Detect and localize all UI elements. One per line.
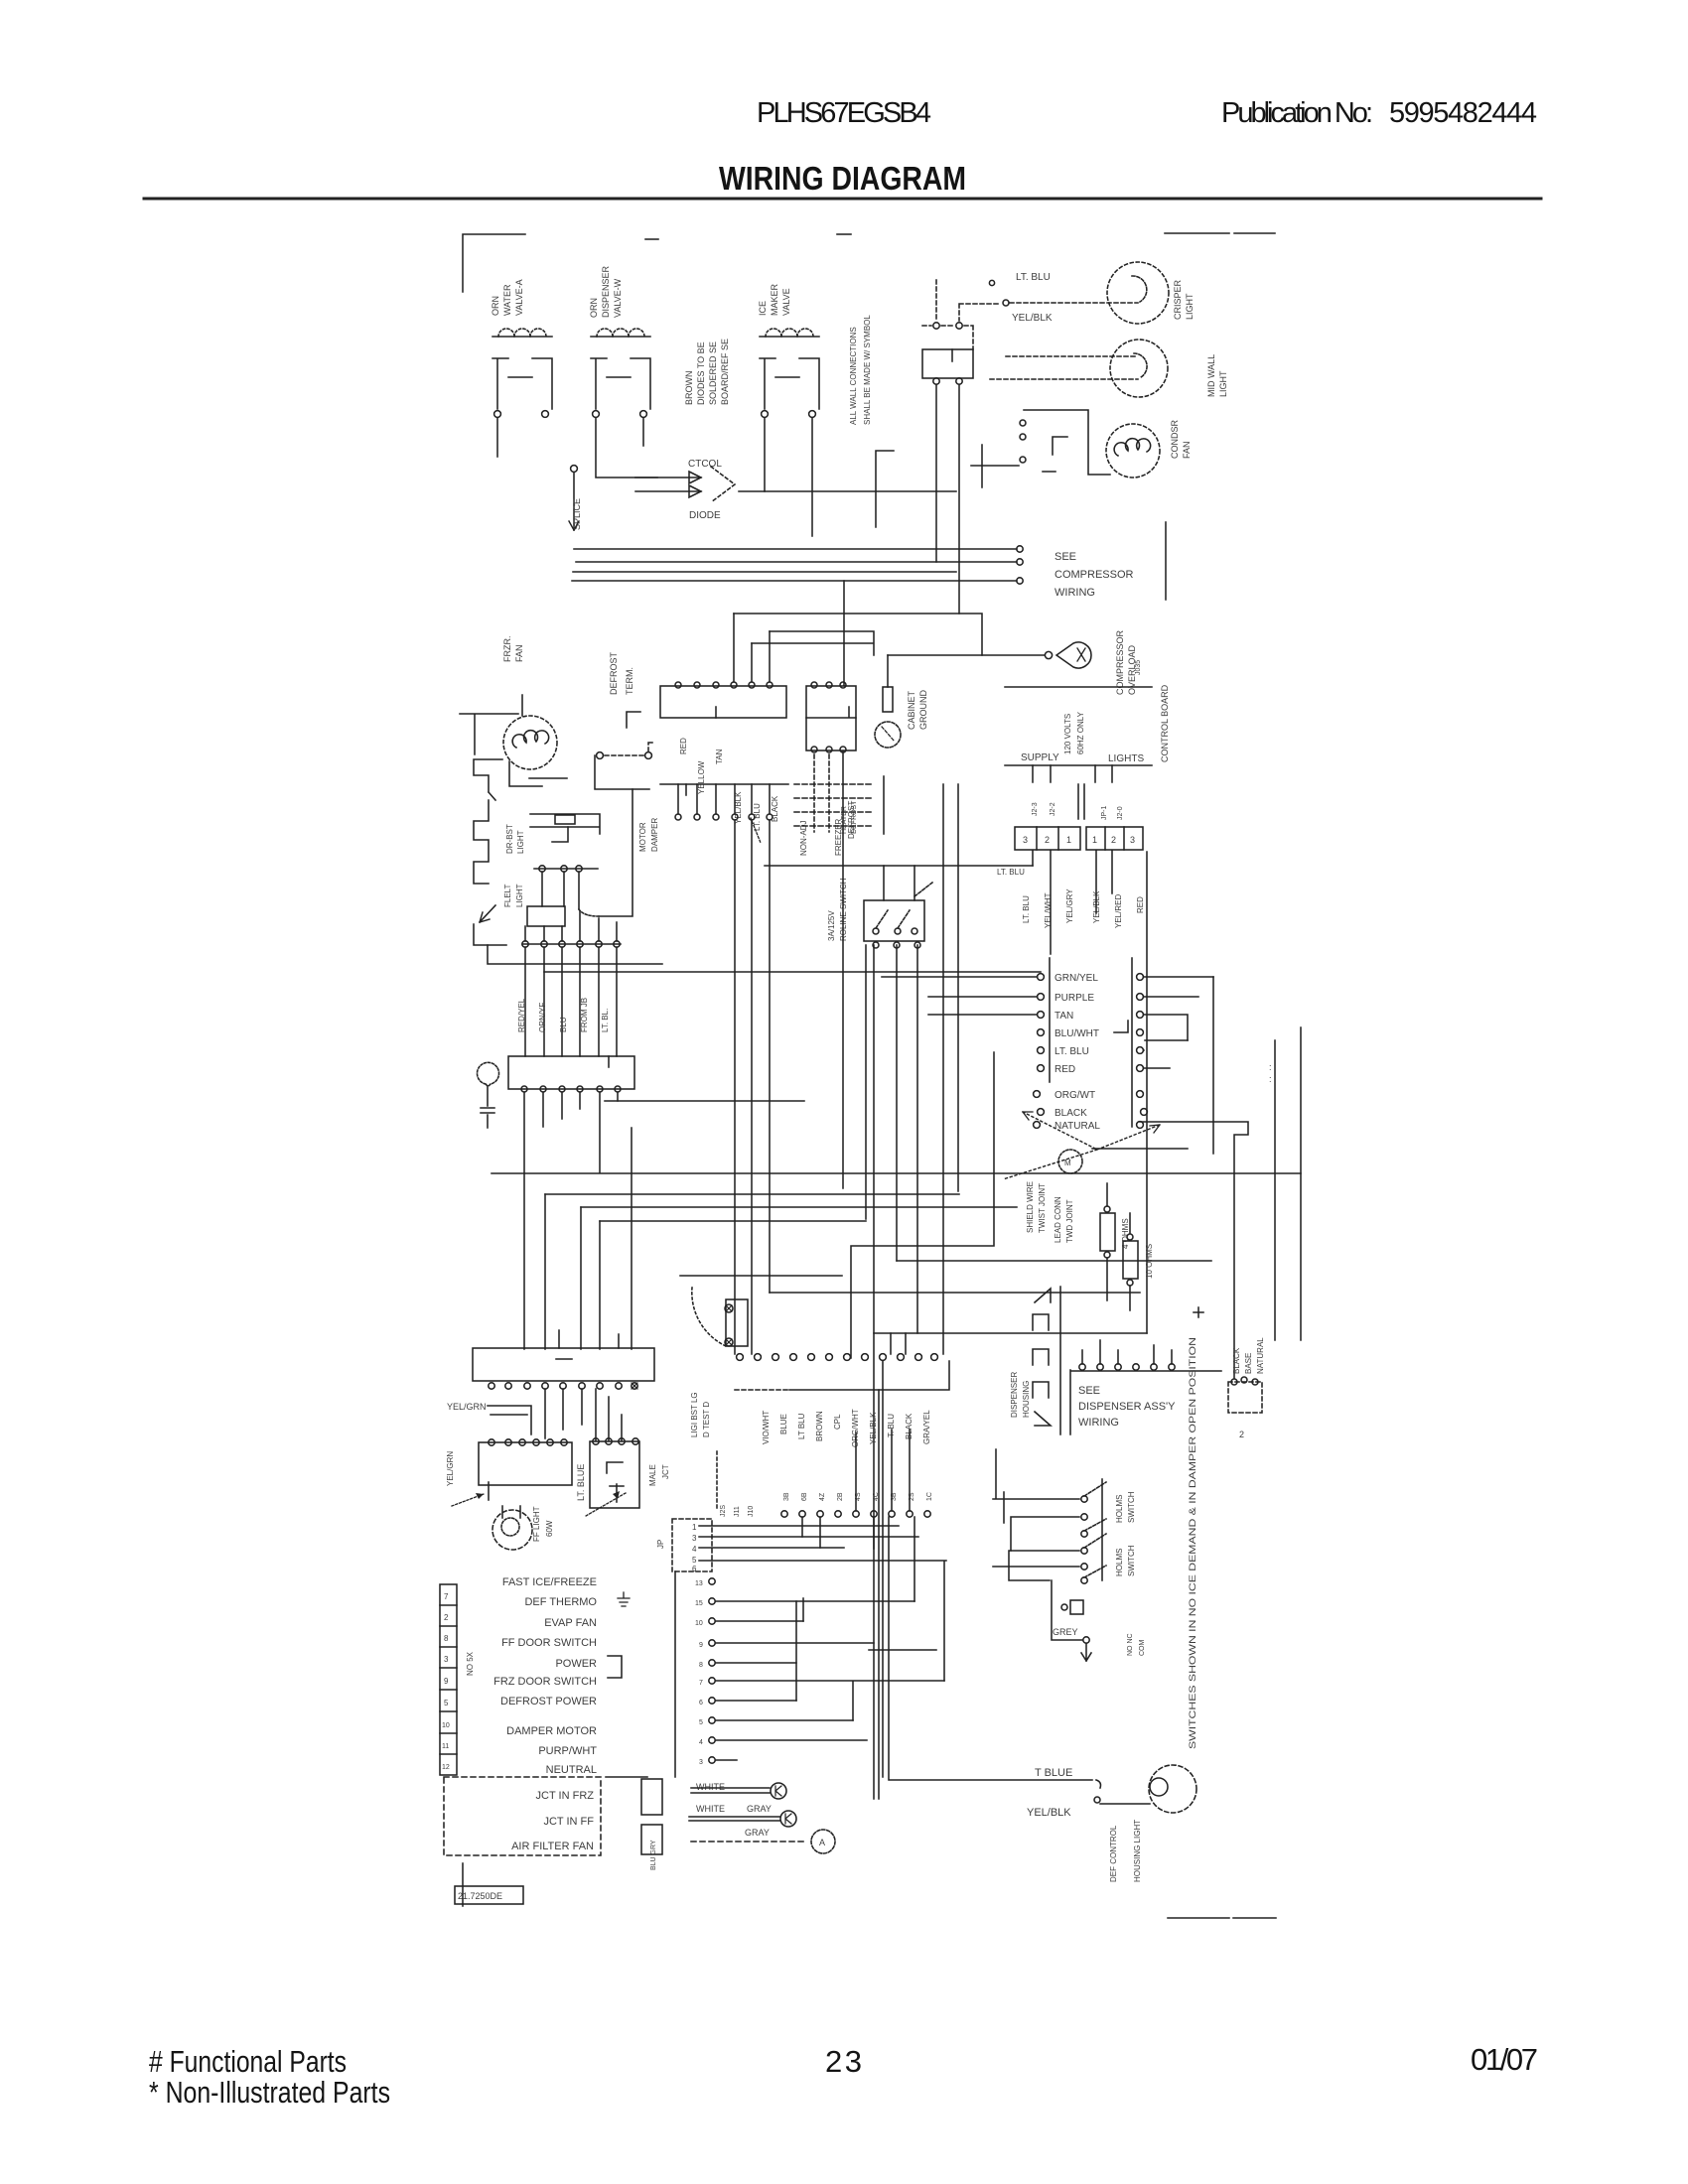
svg-text:AIR FILTER FAN: AIR FILTER FAN	[511, 1841, 594, 1852]
bracket power	[608, 1656, 622, 1678]
connector non-adj control	[806, 686, 856, 751]
svg-text:LIGI BST LG: LIGI BST LG	[690, 1392, 699, 1437]
connector dashed 3pin	[1228, 1382, 1262, 1413]
svg-text:11: 11	[442, 1743, 449, 1750]
wire long vertical G	[958, 385, 960, 614]
terminal strip numbers	[440, 1584, 457, 1775]
fuse symbol a	[488, 1482, 490, 1500]
svg-text:YEL/BLK: YEL/BLK	[1012, 313, 1053, 324]
joint K2	[780, 1811, 796, 1827]
wire long vertical G2	[957, 784, 959, 1191]
wire long vertical A	[843, 581, 844, 1188]
label cabinet ground	[907, 690, 928, 730]
svg-text:J2S: J2S	[720, 1505, 727, 1517]
svg-text:SUPPLY: SUPPLY	[1021, 752, 1059, 763]
svg-text:J2-2: J2-2	[1050, 802, 1056, 816]
fuse symbol b	[616, 1484, 618, 1502]
wire hook right of valve C	[876, 451, 894, 527]
svg-text:COMPRESSOR: COMPRESSOR	[1055, 569, 1134, 581]
svg-text:ORN: ORN	[491, 296, 500, 316]
note see dispenser	[1078, 1385, 1176, 1429]
svg-text:JP-1: JP-1	[1101, 806, 1108, 821]
svg-text:FRZR.: FRZR.	[502, 636, 512, 663]
svg-text:VALVE-A: VALVE-A	[514, 279, 524, 316]
motor freezer fan	[503, 716, 557, 769]
svg-text:SWITCH: SWITCH	[1127, 1545, 1136, 1576]
solenoid L2 dispenser valve coil	[591, 329, 650, 417]
svg-text:J035: J035	[1135, 660, 1142, 675]
label crisper light	[1173, 279, 1195, 320]
svg-text:HOUSING LIGHT: HOUSING LIGHT	[1133, 1820, 1142, 1882]
light switch box	[864, 900, 924, 941]
bus terminals	[1017, 546, 1023, 552]
connector CN1 top right	[922, 349, 973, 378]
svg-text:DAMPER MOTOR: DAMPER MOTOR	[506, 1725, 597, 1737]
cold control box	[508, 1056, 634, 1089]
svg-text:21.7250DE: 21.7250DE	[458, 1891, 502, 1901]
svg-text:NO 5X: NO 5X	[466, 1651, 475, 1676]
ground mark	[1194, 1307, 1203, 1317]
svg-text:COMPRESSOR: COMPRESSOR	[1115, 629, 1125, 695]
svg-text:ICE: ICE	[758, 301, 768, 316]
svg-text:J2-3: J2-3	[1032, 802, 1039, 816]
svg-text:1: 1	[692, 1523, 697, 1532]
svg-text:ORG/WT: ORG/WT	[1055, 1090, 1095, 1101]
svg-text:4: 4	[692, 1545, 697, 1554]
svg-text:A: A	[819, 1838, 825, 1847]
wire vertical x1310	[1300, 1027, 1302, 1340]
svg-text:HOLMS: HOLMS	[1115, 1549, 1124, 1576]
wire valve C right drop	[811, 418, 813, 536]
tick mark top	[645, 238, 658, 240]
wire y1048	[1145, 1039, 1188, 1041]
svg-text:BROWN: BROWN	[684, 371, 694, 406]
wire horizontal y1270	[897, 1260, 1211, 1262]
connector lower right	[590, 1441, 639, 1508]
svg-text:WIRING: WIRING	[1078, 1417, 1119, 1429]
svg-text:BLU GRY: BLU GRY	[650, 1840, 657, 1870]
tick above board	[556, 1358, 572, 1360]
svg-text:JCT IN FF: JCT IN FF	[543, 1816, 594, 1828]
wire long vertical F2	[942, 784, 944, 1354]
svg-text:SPLICE: SPLICE	[572, 498, 582, 530]
svg-text:CABINET: CABINET	[907, 690, 916, 730]
svg-text:CRISPER: CRISPER	[1173, 279, 1183, 320]
wire risers to row	[891, 1333, 906, 1354]
label holms switch 2	[1115, 1545, 1136, 1576]
svg-text:YELLOW: YELLOW	[697, 760, 706, 794]
svg-text:BLACK: BLACK	[1055, 1108, 1087, 1119]
title rule	[144, 198, 1541, 201]
svg-text:J2-0: J2-0	[1117, 806, 1124, 820]
svg-text:FLELT: FLELT	[503, 884, 512, 907]
svg-text:WHITE: WHITE	[696, 1804, 725, 1814]
note diodes to be soldered	[684, 339, 730, 405]
row risers	[802, 1430, 910, 1549]
dashed continuations	[814, 754, 829, 832]
svg-text:15: 15	[695, 1600, 703, 1607]
svg-text:8: 8	[444, 1634, 449, 1643]
svg-text:MOTOR: MOTOR	[638, 822, 647, 852]
svg-text:RED: RED	[1136, 896, 1145, 913]
brace line compressor note	[1165, 522, 1167, 600]
label male jct	[648, 1464, 670, 1486]
main connector row	[737, 1354, 938, 1361]
labels heater wires	[679, 738, 779, 831]
motor condenser fan	[1106, 424, 1160, 478]
svg-text:1C: 1C	[926, 1492, 933, 1501]
control board upper	[1005, 687, 1152, 765]
svg-text:TWD JOINT: TWD JOINT	[1065, 1199, 1074, 1243]
svg-text:LT. BL.: LT. BL.	[601, 1009, 610, 1032]
svg-text:NO NC: NO NC	[1127, 1633, 1134, 1656]
dotted jog	[579, 909, 599, 916]
wire valve A drop	[496, 418, 498, 457]
resistor 10 ohm	[1123, 1241, 1138, 1279]
svg-text:TAN: TAN	[715, 749, 724, 764]
svg-text:3: 3	[692, 1534, 697, 1543]
connector damper pins	[660, 783, 788, 785]
svg-text:ALL WALL CONNECTIONS: ALL WALL CONNECTIONS	[849, 327, 858, 425]
svg-text:13: 13	[695, 1580, 703, 1587]
svg-text:10: 10	[695, 1620, 703, 1627]
svg-text:EVAP FAN: EVAP FAN	[544, 1617, 597, 1629]
svg-text:1: 1	[1092, 835, 1097, 845]
dashed feed riser	[935, 280, 937, 320]
ref labels	[1032, 802, 1124, 820]
svg-text:VIO/WHT: VIO/WHT	[762, 1411, 771, 1444]
label defrost term	[609, 651, 634, 695]
solenoid L3 icemaker water valve coil	[760, 329, 819, 417]
left rail	[674, 1571, 676, 1777]
label heater	[841, 800, 858, 834]
wire grey	[1052, 1580, 1082, 1640]
wire bus D	[572, 580, 1017, 582]
svg-text:COM: COM	[1139, 1640, 1146, 1657]
block pins left	[1034, 974, 1045, 1129]
svg-text:DEFROST: DEFROST	[609, 651, 619, 695]
svg-text:3: 3	[1130, 835, 1135, 845]
svg-text:LIGHTS: LIGHTS	[1108, 753, 1144, 764]
svg-text:GRA/YEL: GRA/YEL	[922, 1410, 931, 1444]
svg-text:3B: 3B	[783, 1492, 790, 1501]
wire vertical x1284	[1274, 1040, 1276, 1340]
svg-text:2: 2	[1045, 835, 1050, 845]
small boxes right of jct	[641, 1779, 662, 1815]
dashed stub	[716, 1451, 718, 1509]
svg-text:FRZ DOOR SWITCH: FRZ DOOR SWITCH	[493, 1676, 597, 1688]
svg-text:FF DOOR SWITCH: FF DOOR SWITCH	[501, 1637, 597, 1649]
svg-text:5: 5	[699, 1719, 703, 1726]
svg-text:2B: 2B	[837, 1492, 844, 1501]
svg-text:J11: J11	[734, 1506, 741, 1517]
svg-text:12: 12	[442, 1764, 450, 1771]
svg-text:HEATER: HEATER	[841, 806, 848, 834]
svg-text:PLHS67EGSB4: PLHS67EGSB4	[757, 97, 931, 129]
wire t blue	[883, 1361, 1092, 1780]
label condenser fan	[1170, 419, 1192, 459]
left riser pair	[595, 755, 633, 789]
board stub wires	[1033, 765, 1112, 782]
wire y1130	[1140, 1122, 1248, 1378]
svg-text:MALE: MALE	[648, 1464, 657, 1486]
wire long vertical damper 1	[734, 820, 736, 1354]
wires above dispenser pins	[1082, 1340, 1172, 1364]
svg-text:RED: RED	[679, 738, 688, 754]
overload protector	[1056, 642, 1091, 668]
junction box small	[527, 906, 565, 926]
svg-text:5995482444: 5995482444	[1389, 97, 1537, 129]
terminal wires	[716, 1601, 944, 1760]
wire horizontal y1302	[770, 1292, 1140, 1294]
svg-text:BLU/WHT: BLU/WHT	[1055, 1028, 1099, 1039]
thermo bulb	[478, 1062, 499, 1086]
svg-text:ORN/YF: ORN/YF	[538, 1003, 547, 1032]
junction A	[811, 1830, 835, 1853]
twisted joint	[1058, 1150, 1082, 1173]
svg-text:POWER: POWER	[555, 1658, 597, 1670]
svg-text:3: 3	[1023, 835, 1028, 845]
switch cluster stair chain	[474, 759, 502, 884]
svg-text:PURPLE: PURPLE	[1055, 993, 1094, 1004]
connector block main rails	[1049, 958, 1051, 1082]
svg-text:SWITCHES SHOWN IN NO ICE DEMAN: SWITCHES SHOWN IN NO ICE DEMAND & IN DAM…	[1188, 1337, 1197, 1749]
svg-text:YEL/GRN: YEL/GRN	[447, 1402, 487, 1412]
heater element rows	[794, 784, 872, 826]
svg-text:GRAY: GRAY	[745, 1828, 770, 1838]
svg-text:# Functional Parts: # Functional Parts	[149, 2044, 347, 2079]
left edge mark	[462, 1863, 464, 1906]
wire yel/blk	[1100, 1803, 1150, 1805]
label frzr fan	[502, 636, 524, 663]
label holms switch 1	[1115, 1491, 1136, 1523]
bracket under fan	[509, 761, 567, 786]
svg-text:DEFROST: DEFROST	[851, 800, 858, 834]
ground sym def thermo	[618, 1592, 630, 1606]
svg-text:9: 9	[699, 1642, 703, 1649]
svg-text:10: 10	[442, 1722, 450, 1729]
svg-text:YEL/BLK: YEL/BLK	[869, 1412, 878, 1444]
label defrost test	[690, 1392, 711, 1437]
wire dashed to A	[691, 1841, 807, 1843]
wire valve B left drop	[596, 418, 657, 478]
chevron bottom	[1035, 1412, 1051, 1426]
wire damper drops	[678, 784, 770, 814]
solenoid L1 water valve-A coil	[492, 329, 552, 417]
row L border	[735, 1389, 789, 1391]
wire horizontal y1157	[1092, 1148, 1188, 1150]
svg-text:3: 3	[444, 1655, 449, 1664]
svg-text:NATURAL: NATURAL	[1055, 1121, 1100, 1132]
board labels	[493, 1576, 647, 1777]
wires JP to right	[699, 1526, 946, 1561]
wire bus A to compressor	[574, 548, 1017, 550]
bottom crop marks	[1168, 1917, 1229, 1919]
svg-text:SHIELD WIRE: SHIELD WIRE	[1026, 1181, 1035, 1233]
labels JP wires	[1022, 888, 1145, 928]
dashed wires to mid wall light	[1006, 355, 1138, 357]
svg-text:* Non-Illustrated Parts: * Non-Illustrated Parts	[149, 2075, 390, 2110]
wire long vertical B	[865, 945, 867, 1219]
svg-text:SWITCH: SWITCH	[1127, 1491, 1136, 1523]
svg-text:TERM.: TERM.	[625, 667, 634, 695]
svg-text:TAN: TAN	[1055, 1011, 1073, 1022]
wire mid bus	[765, 865, 1033, 867]
wire valve B right drop	[642, 418, 644, 446]
svg-text:GRAY: GRAY	[747, 1804, 772, 1814]
switch body	[530, 814, 600, 834]
arrow to light	[480, 905, 495, 922]
svg-text:RED: RED	[1055, 1064, 1075, 1075]
svg-text:GREY: GREY	[1053, 1627, 1078, 1637]
second row labels	[783, 1492, 933, 1501]
defrost thermo	[1149, 1765, 1196, 1813]
joint K1	[771, 1783, 786, 1799]
svg-text:BLUE: BLUE	[779, 1414, 788, 1434]
svg-text:NEUTRAL: NEUTRAL	[546, 1764, 597, 1776]
svg-text:VALVE-W: VALVE-W	[613, 278, 623, 318]
svg-text:6: 6	[692, 1565, 697, 1573]
bracket blu/wht	[1114, 1021, 1128, 1032]
drawing number box	[455, 1886, 523, 1904]
svg-text::: :	[1269, 1062, 1272, 1072]
svg-text:MAKER: MAKER	[770, 283, 779, 316]
svg-text:SEE: SEE	[1055, 551, 1076, 563]
svg-text:LT. BLU: LT. BLU	[1016, 272, 1051, 283]
lamp crisper light	[1107, 262, 1169, 324]
header JP2	[1015, 827, 1080, 850]
row labels	[762, 1409, 931, 1447]
dotted lever	[914, 883, 932, 896]
svg-text:YEL/BLK: YEL/BLK	[1027, 1807, 1071, 1819]
svg-text:M: M	[1064, 1159, 1071, 1167]
svg-text:GRN/YEL: GRN/YEL	[1055, 973, 1098, 984]
wire diode output	[739, 490, 956, 492]
svg-text:HOUSING: HOUSING	[1022, 1381, 1031, 1418]
svg-text:YEL/GRY: YEL/GRY	[1065, 888, 1074, 923]
header JP1	[1086, 827, 1143, 850]
wire fan feed	[460, 695, 522, 754]
splice pair dashed	[597, 752, 604, 759]
svg-text:DISPENSER ASS'Y: DISPENSER ASS'Y	[1078, 1401, 1176, 1413]
label dispenser housing	[1010, 1372, 1031, 1418]
svg-text:60HZ ONLY: 60HZ ONLY	[1076, 711, 1085, 754]
svg-text:LT. BLU: LT. BLU	[997, 868, 1025, 877]
labels non-adj	[799, 801, 856, 856]
svg-text:9: 9	[444, 1677, 449, 1686]
bracket defrost term	[627, 712, 640, 728]
svg-text:DIODES TO BE: DIODES TO BE	[696, 341, 706, 405]
svg-text:HOLMS: HOLMS	[1115, 1495, 1124, 1523]
shield wire arrows	[1003, 1112, 1160, 1179]
svg-text:4Z: 4Z	[819, 1492, 826, 1501]
wire heater pins up	[734, 614, 770, 682]
svg-text:4C: 4C	[873, 1492, 880, 1501]
wire gray pair	[689, 1817, 780, 1821]
svg-text:WIRING DIAGRAM: WIRING DIAGRAM	[719, 160, 966, 197]
labels from harness	[517, 998, 610, 1032]
svg-text:BLU: BLU	[559, 1017, 568, 1032]
labels gray gray	[745, 1804, 772, 1838]
lamp mid wall light	[1110, 340, 1168, 397]
svg-text:NATURAL: NATURAL	[1256, 1337, 1265, 1374]
svg-text:LIGHT: LIGHT	[515, 884, 524, 907]
svg-text:BASE: BASE	[1244, 1353, 1253, 1374]
svg-text:FAST ICE/FREEZE: FAST ICE/FREEZE	[502, 1576, 597, 1588]
svg-text:JCT: JCT	[661, 1464, 670, 1479]
wire long vertical damper 2	[751, 820, 753, 1354]
bus wires from cold control	[492, 1101, 1301, 1221]
wire long vertical damper 3	[769, 820, 771, 1293]
svg-text:T BLUE: T BLUE	[1035, 1767, 1072, 1779]
top crop marks	[1165, 232, 1229, 234]
wire risers	[796, 1517, 944, 1720]
svg-text:1: 1	[1066, 835, 1071, 845]
diode D1	[635, 477, 701, 478]
connector JP dashed	[672, 1519, 712, 1571]
wire heater feed lines	[734, 614, 982, 655]
svg-text:BLACK: BLACK	[1232, 1347, 1241, 1374]
svg-text:SEE: SEE	[1078, 1385, 1100, 1397]
svg-text:DEF THERMO: DEF THERMO	[524, 1596, 597, 1608]
svg-text::: :	[1269, 1074, 1272, 1084]
wire pair yel/grn	[488, 1406, 531, 1434]
wire long vertical C2	[878, 1390, 880, 1799]
svg-text:CONTROL BOARD: CONTROL BOARD	[1160, 684, 1170, 762]
label control housing light	[1109, 1820, 1142, 1882]
svg-text:7: 7	[699, 1680, 703, 1687]
svg-text:DISPENSER: DISPENSER	[601, 265, 611, 318]
svg-text:6: 6	[699, 1700, 703, 1706]
svg-text:LT. BLU: LT. BLU	[1022, 895, 1031, 923]
holms switch 1	[993, 1449, 1106, 1580]
svg-text:8: 8	[699, 1662, 703, 1669]
tick mark top b	[837, 233, 851, 235]
svg-text:6B: 6B	[801, 1492, 808, 1501]
labels j refs	[720, 1505, 755, 1517]
label compressor overload	[1115, 629, 1137, 695]
svg-text:D TEST D: D TEST D	[702, 1402, 711, 1437]
svg-text:2: 2	[1111, 835, 1116, 845]
wire overload feed	[888, 654, 1045, 656]
wire bus C	[573, 571, 956, 573]
svg-text:CPL: CPL	[833, 1414, 842, 1430]
diode D2	[635, 490, 701, 492]
svg-text:PURP/WHT: PURP/WHT	[538, 1745, 597, 1757]
svg-text:LT. BLUE: LT. BLUE	[576, 1464, 586, 1501]
wire into relay left	[971, 445, 1019, 487]
svg-text:DR-BST: DR-BST	[505, 824, 514, 854]
svg-text:LEAD CONN: LEAD CONN	[1054, 1196, 1062, 1243]
svg-text:FAN: FAN	[514, 644, 524, 662]
component plug	[1070, 1600, 1083, 1614]
wire vertical x1222	[1212, 977, 1214, 1154]
svg-text:BOARD/REF SE: BOARD/REF SE	[720, 339, 730, 405]
svg-text:DIODE: DIODE	[689, 510, 721, 521]
wire horizontal y1343	[874, 1332, 1147, 1334]
resistor 4 ohm	[1100, 1213, 1115, 1251]
dashed wire to crisper light	[959, 304, 1001, 321]
label light switch	[827, 878, 848, 941]
relay compressor frame	[1024, 410, 1110, 475]
svg-text:FAN: FAN	[1182, 441, 1192, 459]
label no nc	[1127, 1633, 1146, 1656]
second pin row	[781, 1511, 930, 1517]
splice node	[571, 466, 578, 473]
wire horizontal y1255	[851, 1052, 994, 1358]
dashed junction box	[444, 1777, 601, 1855]
pins row mid	[522, 943, 621, 945]
